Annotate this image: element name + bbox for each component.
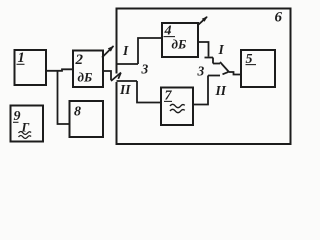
box2 variable arrow: [102, 46, 114, 58]
underline 7: [164, 100, 172, 102]
svg-text:6: 6: [275, 10, 283, 26]
arrowhead box2 arrow: [108, 46, 114, 52]
wire box1 to box2: [46, 69, 73, 71]
wire common to box5: [229, 72, 241, 75]
svg-text:3: 3: [197, 64, 205, 79]
switch arm right: [220, 62, 229, 72]
switch arm right barb: [223, 72, 229, 75]
contact I stub left: [117, 63, 139, 65]
contact I tick right: [205, 57, 214, 59]
box 9 generator: [11, 106, 44, 142]
box 7: [161, 88, 193, 126]
svg-text:1: 1: [18, 50, 25, 66]
box 5: [241, 50, 275, 87]
switch arm left: [111, 73, 121, 82]
wire branch down to box8: [58, 71, 70, 124]
svg-text:3: 3: [141, 62, 149, 77]
wave box7: [170, 104, 185, 112]
svg-text:I: I: [218, 42, 225, 57]
svg-text:дБ: дБ: [78, 70, 93, 85]
box4 variable arrow: [198, 17, 208, 26]
wire box4 output: [198, 42, 209, 57]
box 8: [70, 101, 104, 137]
contact I end right: [213, 63, 220, 65]
underline 1: [17, 63, 25, 65]
generator wave: [19, 132, 32, 139]
contact II stub right: [208, 75, 220, 77]
wire box7 output: [193, 76, 208, 105]
underline 9: [13, 121, 19, 123]
svg-text:II: II: [119, 82, 131, 97]
box 4 attenuator: [162, 23, 198, 57]
box 1: [15, 50, 47, 85]
enclosure box 6: [117, 9, 291, 145]
svg-text:8: 8: [74, 105, 81, 120]
underline 4: [164, 36, 176, 38]
wire box2 output: [103, 71, 111, 80]
arrowhead box4 arrow: [202, 16, 208, 21]
wire down to box 7: [137, 81, 161, 103]
svg-text:I: I: [122, 43, 129, 58]
step vertical right: [212, 58, 214, 64]
box 2 attenuator: [73, 51, 103, 88]
underline 5: [246, 64, 257, 66]
switch arm left barb: [118, 73, 121, 79]
svg-text:дБ: дБ: [172, 37, 187, 52]
contact II stub left: [117, 80, 138, 82]
wire up to box 4: [138, 38, 162, 64]
svg-text:2: 2: [75, 52, 84, 68]
svg-text:II: II: [215, 83, 227, 98]
